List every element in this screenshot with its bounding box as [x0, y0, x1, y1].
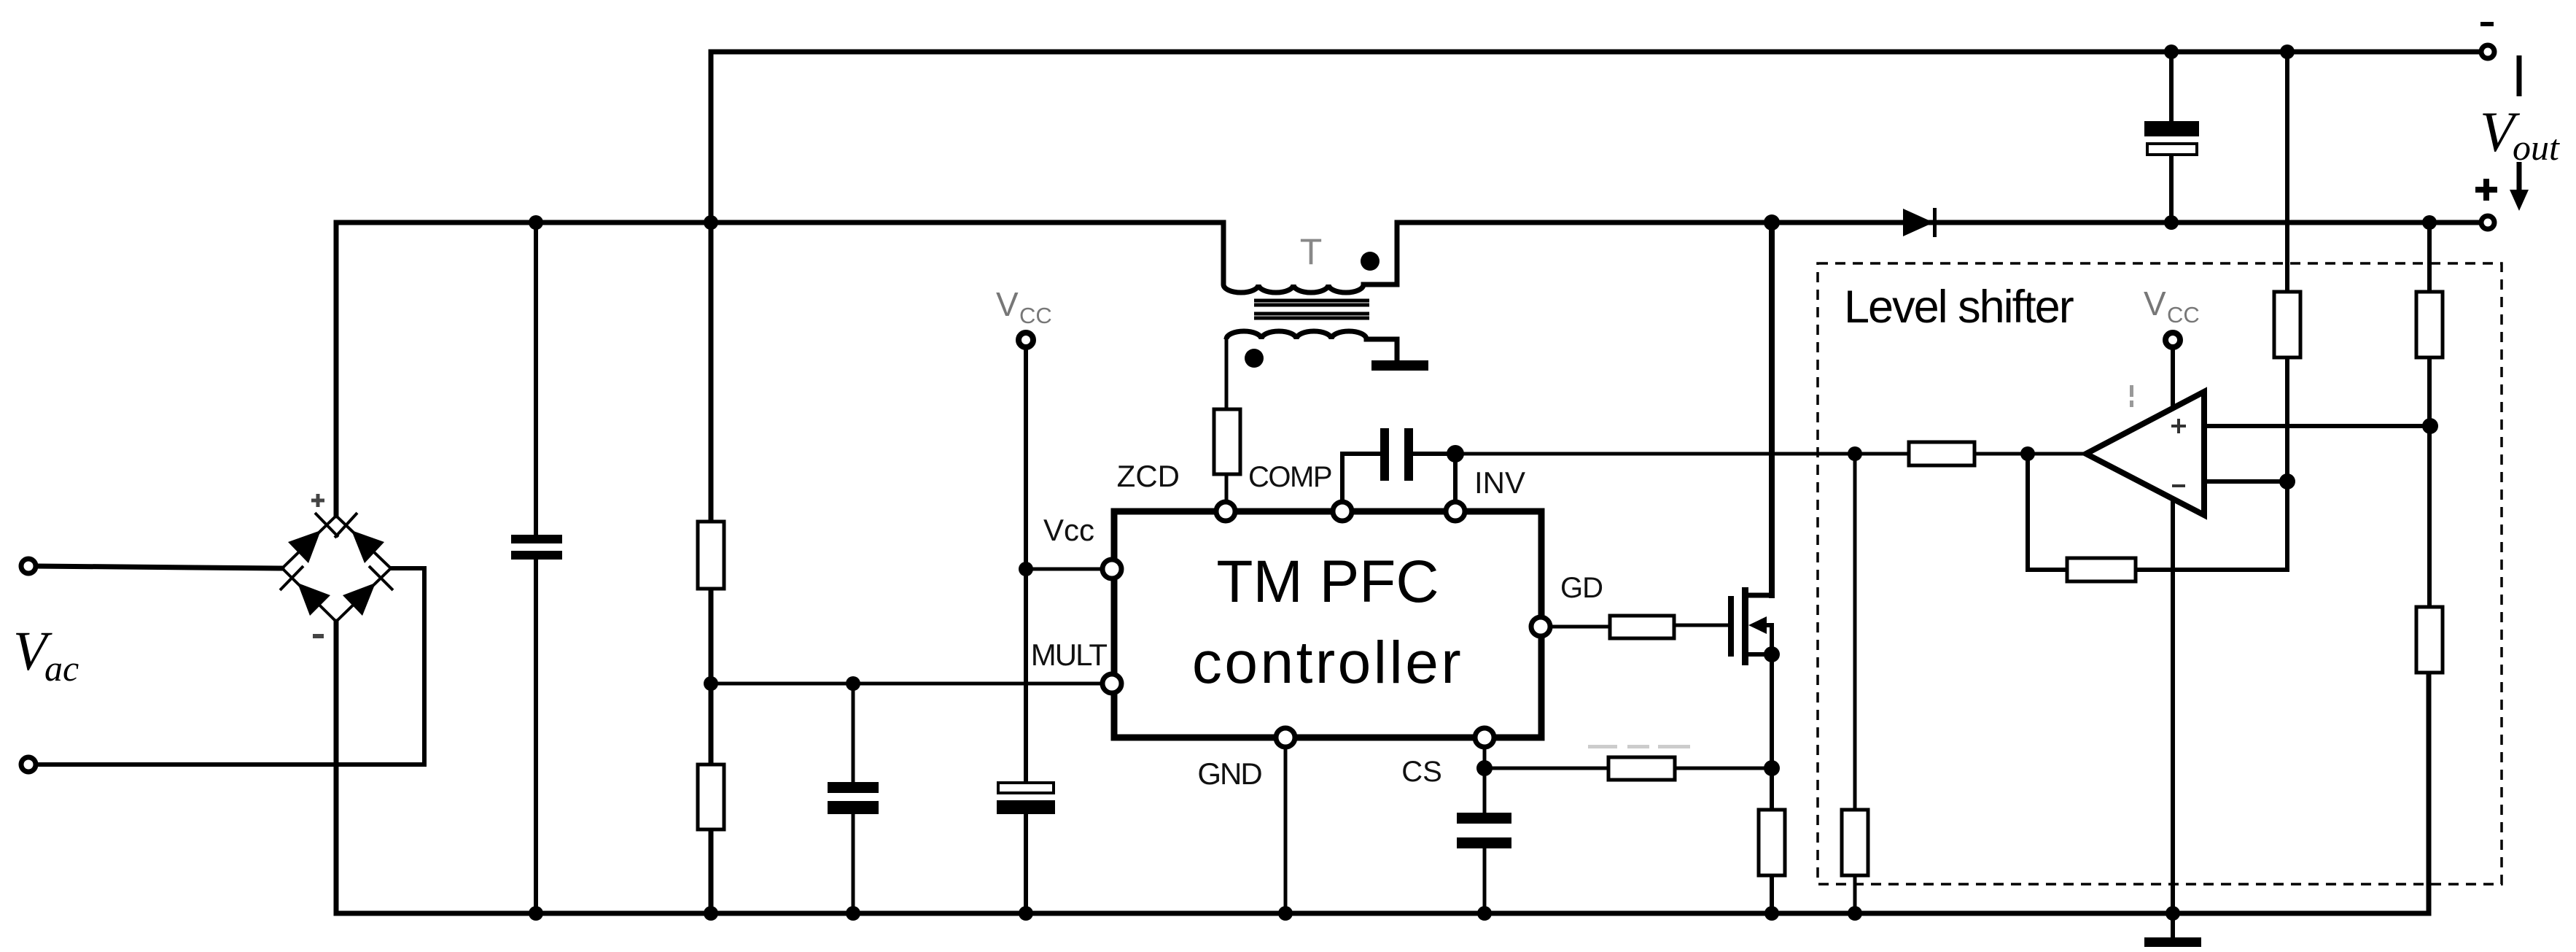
svg-text:GND: GND: [1197, 756, 1261, 791]
node ground rail at GND pin: [1278, 906, 1293, 921]
wire positive rectified rail: [336, 220, 1223, 225]
node ground rail at op-amp ground: [2166, 906, 2180, 921]
resistor gate drive: [1610, 616, 1674, 638]
svg-text:V: V: [2144, 285, 2166, 322]
resistor top rail sense: [2274, 292, 2300, 357]
bridge diode D4 bottom-right: [343, 583, 375, 616]
transformer secondary phase dot: [1245, 349, 1264, 368]
resistor output divider upper: [2416, 292, 2443, 357]
label Vcc level shifter: [2144, 285, 2200, 328]
artifact gray dashes above CS resistor: [1588, 745, 1690, 748]
wire Vac upper lead: [36, 566, 282, 568]
node ground rail at INV divider: [1848, 906, 1862, 921]
svg-text:ac: ac: [44, 648, 79, 689]
svg-text:TM PFC: TM PFC: [1216, 549, 1439, 615]
ground main symbol: [2144, 937, 2201, 947]
transformer T core: [1254, 301, 1369, 318]
svg-text:ZCD: ZCD: [1117, 459, 1180, 493]
resistor op-amp output series: [1909, 442, 1974, 465]
wire rail from transformer to output + terminal: [1397, 220, 2488, 225]
diode boost output: [1903, 208, 1937, 237]
svg-text:V: V: [996, 285, 1019, 323]
label Vcc left: [996, 285, 1052, 328]
svg-text:MULT: MULT: [1031, 638, 1108, 672]
node inverting input: [2279, 473, 2295, 489]
node MOSFET source at sense: [1764, 760, 1780, 776]
wire bridge plus output riser: [334, 222, 339, 516]
capacitor MULT filter C2: [828, 782, 879, 814]
capacitor compensation COMP-INV: [1380, 428, 1413, 481]
svg-text:INV: INV: [1474, 465, 1525, 500]
capacitor Vcc electrolytic C3: [997, 783, 1055, 814]
node top rail at output cap: [2164, 44, 2179, 59]
wire INV long feedback wire to level shifter: [1455, 452, 2086, 456]
wire COMP pin riser: [1342, 454, 1382, 500]
node MULT cap: [846, 676, 860, 691]
terminal Vout minus: [2481, 45, 2494, 58]
wire CS cap to ground: [1483, 848, 1487, 913]
terminal Vcc level shifter: [2166, 333, 2180, 347]
pin INV: [1446, 502, 1465, 521]
node ground rail at shunt: [1764, 906, 1779, 921]
resistor feedback: [2067, 558, 2136, 581]
bridge diode D2 top-right: [351, 530, 384, 563]
node ground rail at MULT cap: [846, 906, 860, 921]
label Vout: [2480, 100, 2560, 168]
bridge diode D3 bottom-left: [297, 583, 330, 616]
node ground rail at Vcc cap: [1019, 906, 1033, 921]
pin CS: [1475, 728, 1494, 747]
wire MULT divider tap to MULT pin: [711, 682, 1101, 686]
node rail at output divider: [2422, 215, 2437, 230]
node rail at MOSFET drain: [1764, 214, 1780, 231]
wire GD pin to gate resistor: [1552, 625, 1610, 629]
svg-text:CS: CS: [1401, 756, 1442, 788]
resistor INV lower divider: [1842, 810, 1868, 875]
node INV wire at divider: [1848, 446, 1862, 461]
IC U1 TM PFC controller box: [1114, 511, 1541, 738]
node ground rail at input cap: [529, 906, 543, 921]
label Vout minus sign: [2480, 22, 2494, 26]
wire MOSFET drain riser to rail: [1769, 222, 1775, 595]
Vout direction arrow: [2510, 55, 2529, 211]
node ground rail at left bus: [704, 906, 718, 921]
transformer T secondary winding: [1226, 331, 1397, 360]
pin ZCD: [1216, 502, 1235, 521]
label Vout plus sign: [2475, 179, 2497, 201]
wire top negative output rail: [711, 50, 2488, 55]
pin COMP: [1333, 502, 1352, 521]
wire comp cap to INV node: [1413, 452, 1455, 456]
wire op-amp non-inverting input: [2204, 424, 2430, 428]
wire op-amp supply and ground line: [2171, 348, 2175, 913]
pin Vcc: [1102, 560, 1121, 578]
node CS below pin: [1476, 760, 1493, 776]
wire Vac lower lead: [36, 568, 424, 765]
transformer T primary winding: [1223, 222, 1397, 293]
node rail at left bus: [704, 215, 718, 230]
capacitor output electrolytic C4: [2144, 121, 2199, 155]
resistor source shunt: [1759, 810, 1785, 875]
wire output cap branch: [2169, 52, 2174, 121]
bridge minus mark: [313, 634, 324, 638]
wire gate resistor to MOSFET gate: [1674, 624, 1728, 627]
wire Vcc to Vcc pin: [1026, 568, 1101, 571]
wire ZCD from secondary: [1225, 339, 1229, 409]
transistor Q1 MOSFET: [1728, 587, 1772, 665]
bridge diode D1 top-left: [288, 530, 321, 563]
node MULT tap: [704, 676, 718, 691]
pin MULT: [1102, 674, 1121, 693]
svg-text:Level shifter: Level shifter: [1844, 282, 2074, 333]
wire op-amp inverting input: [2204, 479, 2287, 484]
wire CS to sense resistor: [1484, 767, 1608, 770]
node MOSFET source: [1764, 646, 1780, 662]
wire output divider branch: [2427, 222, 2432, 292]
svg-text:Vcc: Vcc: [1043, 513, 1094, 547]
resistor ZCD series: [1214, 409, 1240, 474]
svg-text:COMP: COMP: [1248, 461, 1331, 493]
wire left vertical bus (rectified line down to ground): [709, 52, 714, 913]
wire input filter capacitor branch: [534, 222, 538, 536]
op-amp U2: [2086, 392, 2204, 515]
wire MULT filter cap branch: [852, 684, 855, 783]
capacitor CS filter: [1457, 813, 1511, 848]
svg-text:T: T: [1300, 231, 1323, 272]
wire op-amp output to feedback resistor: [1974, 452, 2028, 456]
node rail at output cap plus: [2164, 215, 2179, 230]
wire bottom ground rail: [336, 911, 2429, 916]
pin GND: [1276, 728, 1295, 747]
svg-text:out: out: [2513, 127, 2560, 168]
node top rail at sense divider: [2280, 44, 2295, 59]
svg-text:CC: CC: [1019, 303, 1052, 328]
node Vcc pin branch: [1019, 562, 1033, 576]
terminal Vout plus: [2481, 216, 2494, 229]
node ground rail at CS cap: [1477, 906, 1492, 921]
wire feedback resistor loop: [2028, 454, 2067, 570]
resistor output divider lower: [2416, 607, 2443, 673]
terminal Vac upper: [21, 559, 36, 573]
svg-text:CC: CC: [2167, 302, 2200, 328]
artifact gray dashes near op-amp: [2130, 385, 2133, 407]
label Vac: [13, 621, 79, 689]
node non-inverting input: [2422, 418, 2438, 434]
svg-text:controller: controller: [1192, 630, 1463, 696]
wire bridge minus output down: [334, 622, 339, 913]
wire GND pin to ground rail: [1284, 748, 1288, 913]
capacitor input filter C1: [511, 535, 562, 560]
bridge plus mark: [311, 494, 324, 507]
resistor divider R2 lower: [698, 765, 724, 829]
svg-text:GD: GD: [1560, 572, 1603, 604]
transformer primary phase dot: [1361, 252, 1380, 271]
node INV above pin: [1447, 445, 1464, 463]
terminal Vcc supply: [1019, 333, 1033, 347]
wire right divider riser from ground rail: [2427, 673, 2432, 913]
wire INV pin riser: [1453, 454, 1458, 500]
wire Vcc terminal down: [1024, 348, 1028, 782]
resistor CS sense horizontal: [1608, 757, 1675, 780]
diode bridge rectifier: [280, 494, 393, 638]
node rail at input cap: [529, 215, 543, 230]
wire CS pin down: [1483, 748, 1487, 813]
ground auxiliary winding: [1371, 360, 1428, 371]
pin GD: [1531, 617, 1550, 636]
terminal Vac lower: [21, 757, 36, 772]
node op-amp output: [2020, 446, 2035, 461]
wire INV node down through divider resistor: [1853, 454, 1857, 810]
wire MOSFET source down: [1770, 654, 1774, 810]
resistor divider R1 upper: [698, 522, 724, 589]
dashed box level shifter: [1818, 263, 2502, 884]
wire ground symbol stub: [2171, 913, 2175, 937]
wire top rail sense branch: [2285, 52, 2289, 292]
